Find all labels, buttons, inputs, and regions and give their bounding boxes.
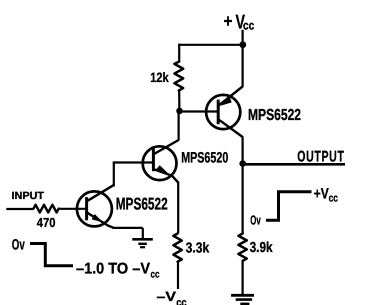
transistor Q1 MPS6522 (NPN, bottom left) bbox=[77, 185, 114, 228]
transistor Q3 MPS6522 (PNP, top right) bbox=[206, 87, 243, 138]
svg-text:3.3k: 3.3k bbox=[186, 240, 210, 256]
wire 3.9k bottom lead bbox=[242, 261, 244, 295]
svg-text:470: 470 bbox=[37, 215, 56, 230]
wire +Vcc stub down to top node bbox=[242, 30, 244, 45]
wire Q1 emitter horizontal to ground bbox=[113, 227, 143, 229]
wire Q2 emitter down to 3.3k bbox=[177, 182, 179, 234]
ground (Q1 emitter) bbox=[132, 239, 153, 247]
wire Q3 base lead bbox=[180, 110, 218, 112]
ground (below 3.9k) bbox=[231, 295, 254, 304]
label -1.0 TO -Vcc bbox=[76, 261, 160, 281]
wire left waveform step bbox=[30, 244, 73, 266]
svg-text:MPS6520: MPS6520 bbox=[181, 150, 228, 167]
wire Q1 collector vertical bbox=[113, 163, 115, 187]
svg-text:Ov: Ov bbox=[250, 213, 261, 228]
svg-text:MPS6522: MPS6522 bbox=[248, 107, 301, 124]
resistor 470 (input) bbox=[34, 205, 59, 213]
wire output horizontal line bbox=[243, 163, 345, 166]
svg-text:+V: +V bbox=[314, 185, 329, 202]
wire Q1 ground stub bbox=[142, 228, 144, 239]
wire Q3 collector down to output node bbox=[242, 137, 244, 164]
svg-text:INPUT: INPUT bbox=[12, 190, 45, 202]
svg-text:cc: cc bbox=[329, 192, 338, 204]
wire top horizontal from 12k column to +Vcc node bbox=[178, 44, 243, 46]
svg-text:+: + bbox=[224, 11, 233, 31]
wire right waveform step bbox=[266, 192, 312, 220]
wire 470 to Q1 base bbox=[59, 208, 88, 210]
svg-text:–1.0 TO –V: –1.0 TO –V bbox=[76, 261, 151, 278]
resistor 3.9k bbox=[238, 234, 246, 261]
wire Q2 collector up to node A bbox=[178, 111, 180, 141]
wire output node down to 3.9k bbox=[242, 164, 244, 233]
wire 12k top lead bbox=[178, 44, 180, 61]
node top junction dot bbox=[239, 41, 246, 48]
label +Vcc (top supply) bbox=[224, 11, 255, 34]
svg-text:3.9k: 3.9k bbox=[250, 240, 274, 256]
resistor 3.3k bbox=[173, 234, 181, 262]
wire input lead bbox=[6, 208, 33, 210]
wire 3.3k bottom lead to -Vcc bbox=[177, 262, 179, 289]
svg-text:Ov: Ov bbox=[12, 237, 25, 254]
resistor 12k bbox=[174, 62, 183, 91]
wire 12k bottom lead to node A bbox=[178, 91, 180, 111]
svg-text:MPS6522: MPS6522 bbox=[116, 194, 168, 213]
svg-text:12k: 12k bbox=[150, 70, 169, 85]
label +Vcc (right waveform) bbox=[314, 185, 338, 204]
svg-text:cc: cc bbox=[243, 18, 254, 32]
svg-text:–V: –V bbox=[157, 289, 177, 304]
label -Vcc (below 3.3k) bbox=[157, 289, 187, 305]
svg-text:cc: cc bbox=[176, 297, 186, 305]
svg-text:OUTPUT: OUTPUT bbox=[297, 149, 344, 166]
transistor Q2 MPS6520 (NPN, middle) bbox=[143, 140, 179, 183]
svg-text:cc: cc bbox=[151, 269, 160, 281]
wire Q2 base lead from Q1 collector corner bbox=[113, 161, 153, 163]
node A junction dot (12k / Q2 collector / Q3 base) bbox=[176, 108, 183, 115]
node output junction dot bbox=[239, 160, 246, 167]
wire Q3 emitter up to +Vcc node bbox=[242, 45, 244, 87]
